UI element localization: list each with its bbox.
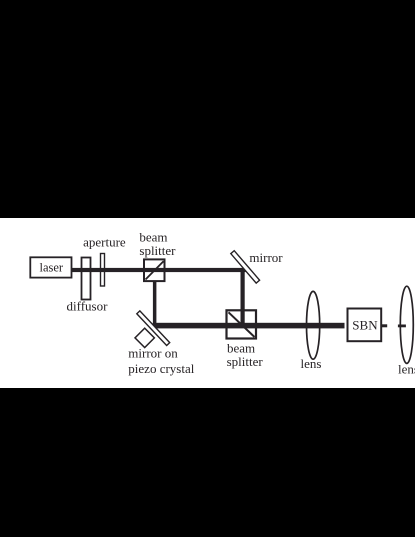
svg-text:SBN: SBN: [352, 318, 378, 333]
svg-text:laser: laser: [40, 260, 64, 274]
svg-text:aperture: aperture: [83, 235, 126, 250]
svg-text:splitter: splitter: [227, 354, 264, 369]
svg-text:mirror on: mirror on: [128, 346, 178, 361]
svg-text:splitter: splitter: [139, 243, 176, 258]
svg-text:piezo crystal: piezo crystal: [128, 361, 194, 376]
svg-text:mirror: mirror: [249, 250, 283, 265]
svg-text:diffusor: diffusor: [67, 299, 109, 314]
svg-text:lens: lens: [398, 361, 415, 376]
svg-text:lens: lens: [301, 356, 322, 371]
